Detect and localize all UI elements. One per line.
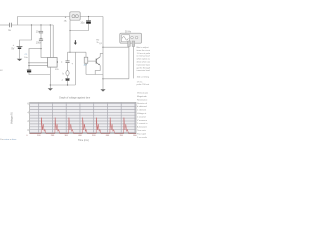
wire down to cap <box>88 17 90 21</box>
wire cap down and left to meter bottom <box>70 24 89 31</box>
wire <box>40 33 42 39</box>
wire IC pin 2 <box>29 65 48 67</box>
legend texts <box>137 92 148 139</box>
svg-text:Time axis: Time axis <box>137 130 146 132</box>
wire <box>67 76 69 79</box>
node IC output <box>57 61 58 62</box>
oscilloscope plot panel <box>30 102 136 133</box>
svg-text:transistor load: transistor load <box>137 69 150 72</box>
node junction x103 y47.2 <box>102 47 103 48</box>
op-amp U1 (IC box) <box>48 58 58 68</box>
svg-text:Time (ms): Time (ms) <box>78 139 89 142</box>
capacitor C5 (dark bar on left chain) <box>27 69 31 71</box>
svg-text:V measure: V measure <box>137 119 148 122</box>
wire y85 to right <box>50 84 75 86</box>
signal generator G1 box <box>120 33 142 43</box>
ground (battery) <box>17 59 23 61</box>
wire from node to left chain <box>29 49 50 75</box>
svg-text:Pace grid: Pace grid <box>137 132 147 135</box>
node junction x41 y48.6 <box>40 48 41 49</box>
wire source terminals down <box>128 47 130 79</box>
svg-text:transistor base: transistor base <box>137 63 150 66</box>
wire x75.4 vertical <box>74 52 76 85</box>
wire right bus x103 <box>102 17 104 90</box>
wire cap chain x41 <box>40 25 42 31</box>
capacitor C3 <box>39 31 43 33</box>
svg-text:go the through: go the through <box>137 66 150 69</box>
svg-text:A measure: A measure <box>137 126 148 129</box>
wire battery branch <box>20 25 32 46</box>
node junction x50.3 y25 <box>50 24 51 25</box>
wire <box>67 63 69 71</box>
wire IC pin 1 <box>29 62 48 64</box>
node junction x70 y30.5 <box>69 30 70 31</box>
svg-text:pulse 700 out: pulse 700 out <box>137 83 150 86</box>
svg-text:is interval each: is interval each <box>137 55 150 58</box>
capacitor C2 (series input cap) <box>10 23 12 28</box>
y axis labels <box>28 104 30 132</box>
wire branch up to top rail <box>18 17 70 26</box>
svg-text:1 current in: 1 current in <box>137 122 148 125</box>
node junction x41 y25 <box>40 24 41 25</box>
wire IC bottom to ground <box>49 67 51 88</box>
svg-text:Voltage at: Voltage at <box>137 112 147 115</box>
node junction x29 y62.8 <box>28 62 29 63</box>
node junction x88.5 y16.5 <box>88 16 89 17</box>
svg-text:1 element: 1 element <box>137 109 147 112</box>
wire meter out to right <box>80 16 103 18</box>
wire IC top pins <box>49 25 51 58</box>
svg-text:For extra a drive: For extra a drive <box>0 138 17 141</box>
wire y47.2 to source <box>103 46 129 48</box>
svg-text:1.0 ms at pulse: 1.0 ms at pulse <box>137 52 150 55</box>
svg-text:9V: 9V <box>11 48 14 51</box>
node junction x103 y78.8 <box>102 78 103 79</box>
svg-text:Vertical axis: Vertical axis <box>137 92 148 95</box>
svg-text:Resistor of: Resistor of <box>137 102 147 105</box>
node junction x70 y52.2 <box>69 52 70 53</box>
wire emitter down to y74.5 <box>95 65 100 74</box>
svg-text:timer the circuit: timer the circuit <box>137 49 150 52</box>
transistor Q1 <box>88 60 96 62</box>
node junction x66.8 y85 <box>67 84 68 85</box>
svg-text:J: J <box>61 80 62 82</box>
svg-text:17 ms: 17 ms <box>137 81 143 83</box>
svg-text:drive when and: drive when and <box>137 61 150 64</box>
node junction x31.5 y25 <box>31 24 32 25</box>
capacitor C4 <box>39 39 43 41</box>
svg-text:1 second: 1 second <box>137 116 146 118</box>
capacitor C7 <box>66 61 70 63</box>
node junction x41 y38.3 <box>40 38 41 39</box>
x axis labels <box>26 135 137 137</box>
svg-text:Voltage (V): Voltage (V) <box>11 112 14 124</box>
wire meter bottom down <box>69 20 71 52</box>
svg-text:Graph of voltage against time: Graph of voltage against time <box>59 97 91 100</box>
wire bus bar y52.2 <box>68 51 87 53</box>
wire y78.8 return to bus <box>103 78 129 80</box>
svg-text:10u: 10u <box>80 22 85 25</box>
ground (IC) <box>48 88 53 90</box>
svg-text:50 Hz: 50 Hz <box>125 31 132 33</box>
trace V(out) red <box>30 118 136 134</box>
meter M1 box <box>70 12 80 20</box>
node junction y85 <box>50 84 51 85</box>
svg-text:1 ms scale: 1 ms scale <box>137 137 148 139</box>
wire battery to ground <box>19 49 21 59</box>
capacitor C6 (polarized, dark) <box>86 20 91 22</box>
battery B1 <box>17 46 23 48</box>
wire y74.5 <box>86 74 103 76</box>
wire chain bottom to y85 <box>67 81 69 85</box>
svg-text:d obtained: d obtained <box>137 105 148 108</box>
svg-text:Resistance: Resistance <box>137 98 148 101</box>
svg-text:Magnitude: Magnitude <box>137 95 148 98</box>
wire collector to bus <box>100 54 103 57</box>
wire to IC top area <box>41 41 48 58</box>
resistor R1 <box>85 52 87 57</box>
wire input rail y25 right <box>12 24 54 26</box>
capacitor C8 (dark) <box>65 77 69 79</box>
wire input rail y25 left <box>0 24 9 26</box>
lamp L1 (ellipse) <box>66 71 69 76</box>
svg-text:when spike out: when spike out <box>137 58 150 61</box>
ground (bus) <box>100 89 105 91</box>
cursor arrow <box>75 40 76 43</box>
wire left chain down <box>67 52 69 60</box>
node junction x29 y65.6 <box>28 65 29 66</box>
svg-text:100 us timing: 100 us timing <box>137 75 150 78</box>
svg-text:Bits to adjust: Bits to adjust <box>137 46 149 49</box>
annotation text block right <box>137 46 152 86</box>
